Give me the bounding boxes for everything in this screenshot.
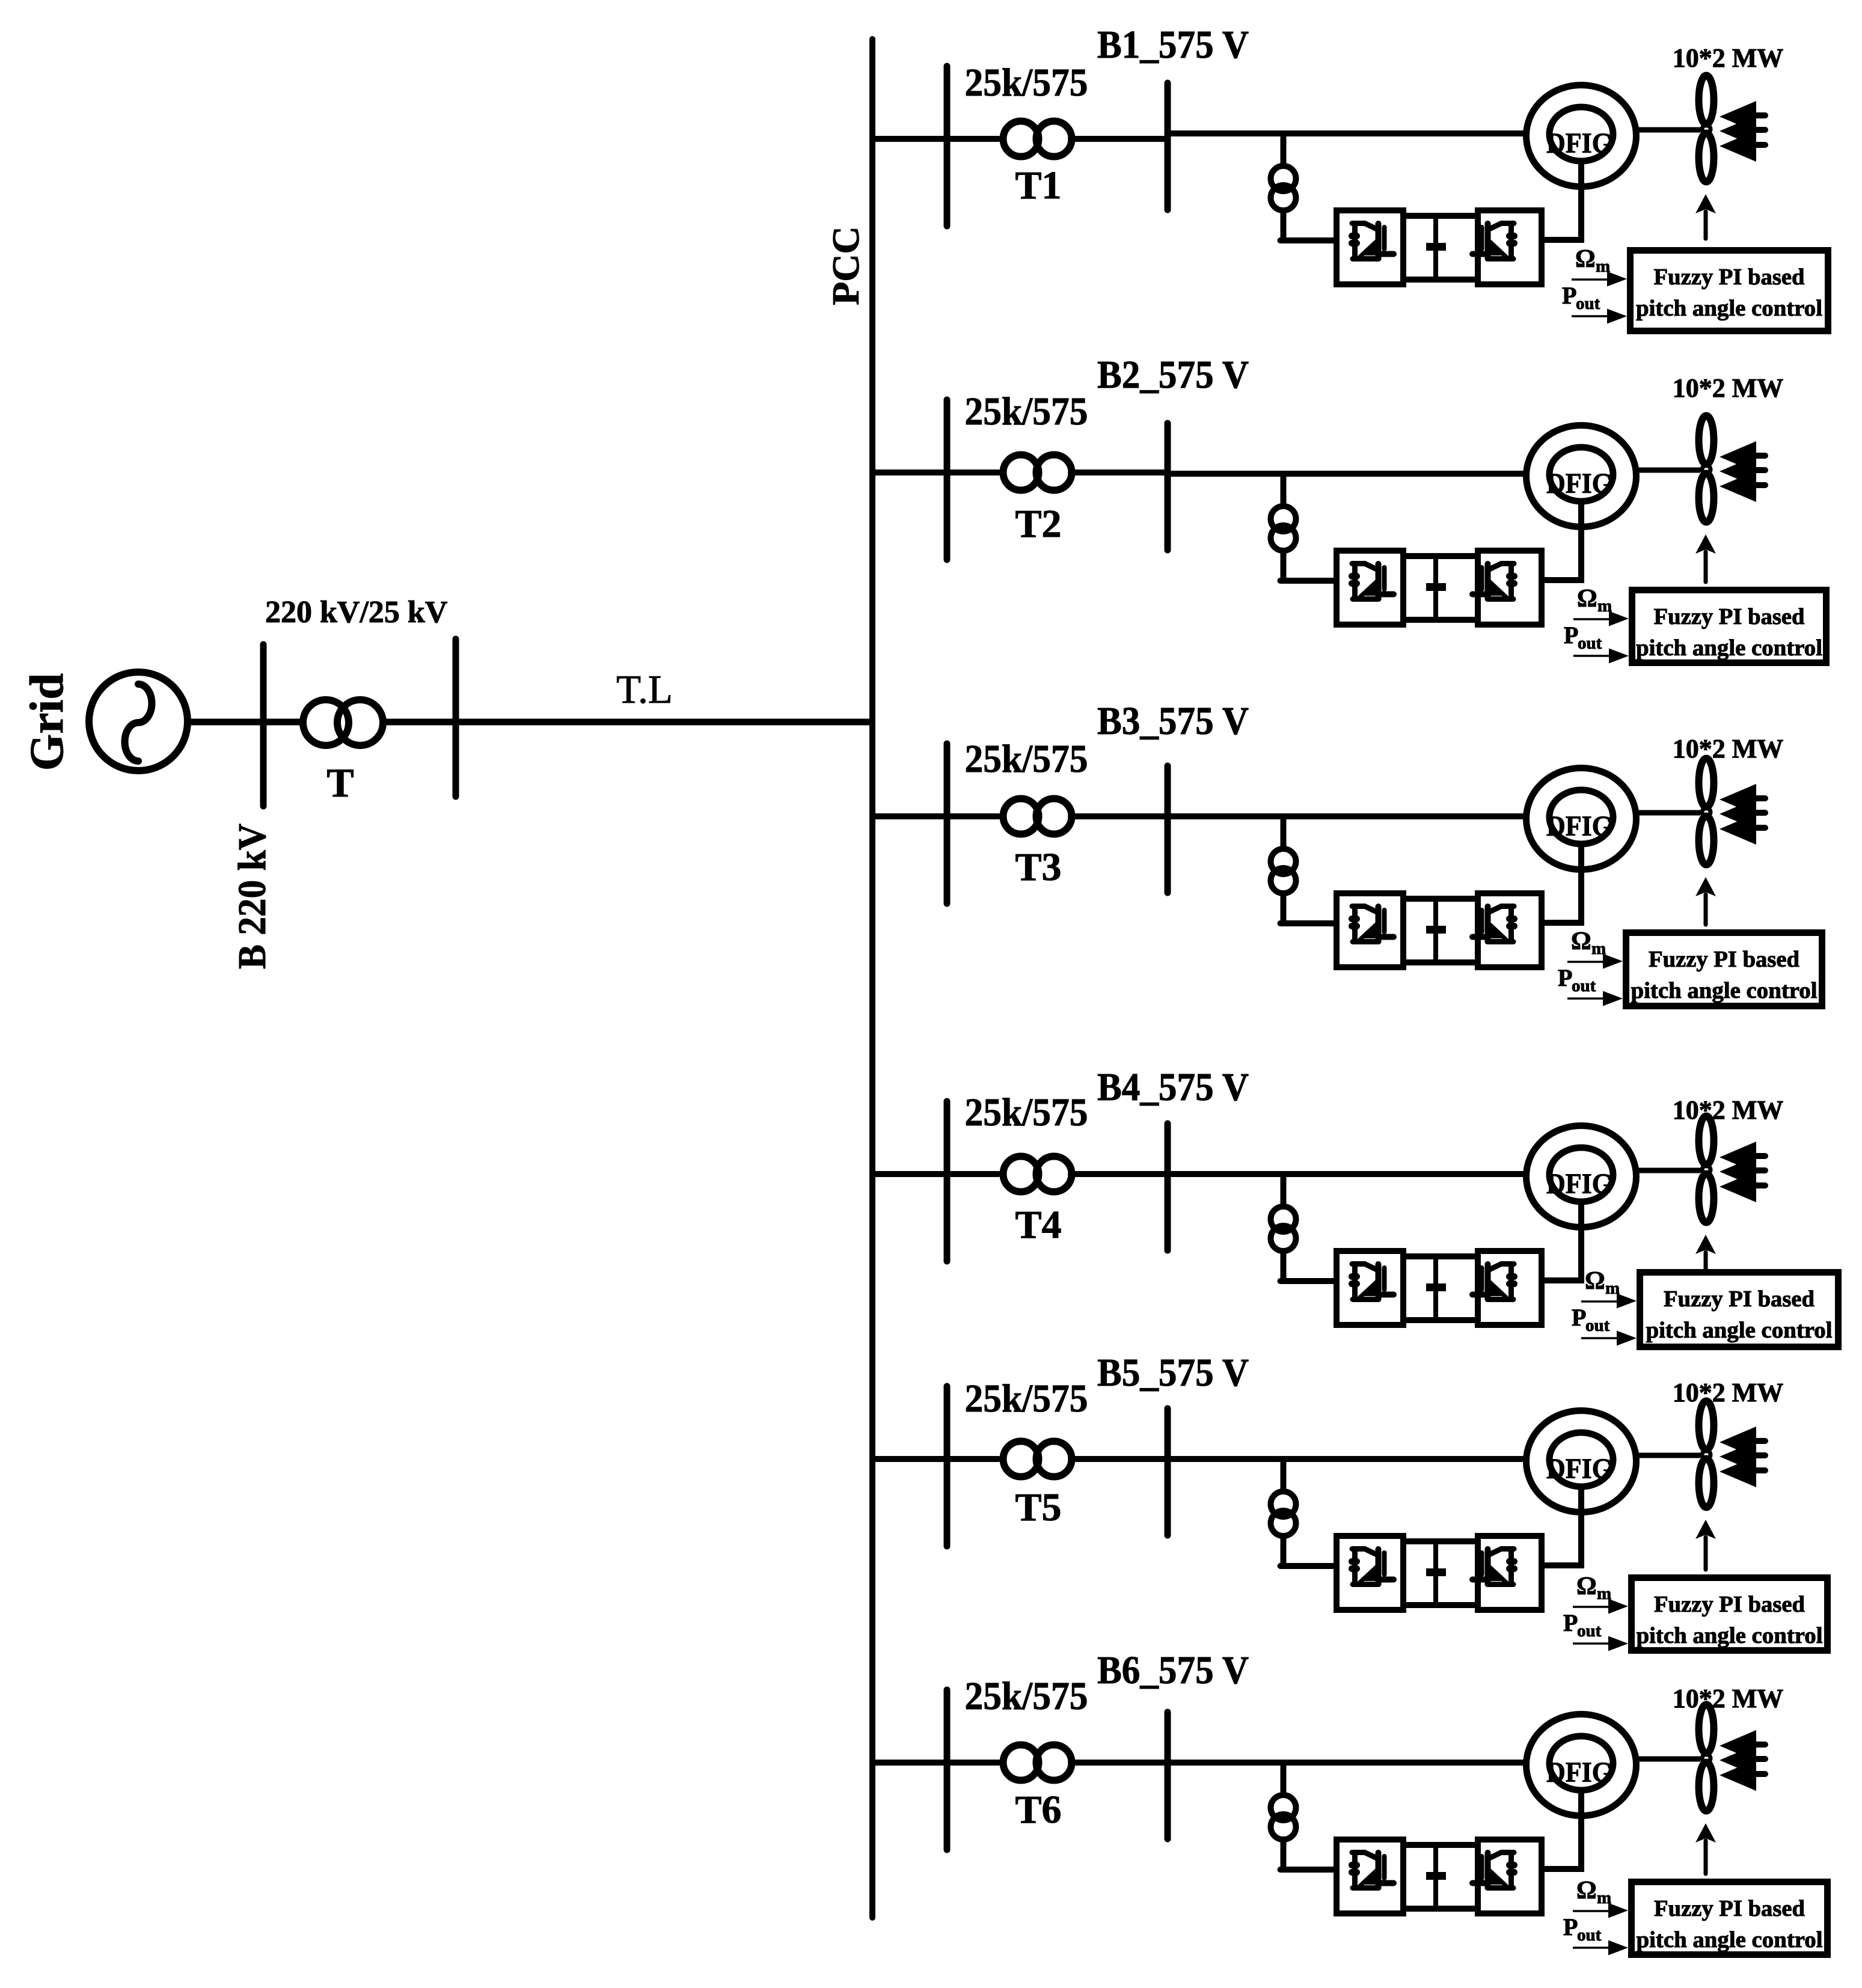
svg-text:DFIG: DFIG <box>1546 1453 1612 1485</box>
svg-text:10*2 MW: 10*2 MW <box>1673 373 1784 403</box>
svg-text:T2: T2 <box>1015 502 1061 546</box>
svg-text:B1_575 V: B1_575 V <box>1097 23 1249 67</box>
svg-text:T4: T4 <box>1015 1203 1061 1247</box>
svg-text:Fuzzy PI based: Fuzzy PI based <box>1654 1896 1805 1921</box>
svg-text:DFIG: DFIG <box>1546 810 1612 842</box>
svg-text:m: m <box>1597 596 1612 616</box>
svg-text:Fuzzy PI based: Fuzzy PI based <box>1654 604 1805 629</box>
svg-text:B6_575 V: B6_575 V <box>1097 1648 1249 1692</box>
svg-text:out: out <box>1576 294 1600 313</box>
svg-text:Fuzzy PI based: Fuzzy PI based <box>1654 1592 1805 1617</box>
svg-text:pitch angle control: pitch angle control <box>1631 978 1818 1003</box>
svg-text:out: out <box>1577 1621 1602 1641</box>
svg-text:T1: T1 <box>1015 164 1061 207</box>
svg-text:25k/575: 25k/575 <box>965 1090 1088 1134</box>
svg-text:pitch angle control: pitch angle control <box>1646 1318 1833 1343</box>
svg-text:out: out <box>1578 634 1602 653</box>
svg-text:B4_575 V: B4_575 V <box>1097 1065 1249 1109</box>
svg-text:T5: T5 <box>1015 1485 1061 1529</box>
svg-text:P: P <box>1563 1913 1578 1941</box>
svg-text:Ω: Ω <box>1576 1573 1597 1600</box>
svg-text:B5_575 V: B5_575 V <box>1097 1351 1249 1395</box>
svg-text:10*2 MW: 10*2 MW <box>1673 1378 1784 1407</box>
svg-text:Ω: Ω <box>1577 585 1597 613</box>
svg-text:pitch angle control: pitch angle control <box>1636 296 1822 321</box>
svg-text:pitch angle control: pitch angle control <box>1637 1927 1823 1953</box>
svg-text:T: T <box>326 760 354 806</box>
svg-text:B 220 kV: B 220 kV <box>230 824 274 969</box>
svg-text:T3: T3 <box>1015 845 1061 889</box>
svg-text:B3_575 V: B3_575 V <box>1097 699 1249 743</box>
svg-text:25k/575: 25k/575 <box>965 1377 1088 1421</box>
svg-text:Grid: Grid <box>21 673 73 771</box>
svg-text:m: m <box>1597 1888 1611 1907</box>
svg-text:T.L: T.L <box>616 667 673 712</box>
svg-text:25k/575: 25k/575 <box>965 390 1088 433</box>
svg-text:Ω: Ω <box>1575 245 1596 273</box>
svg-text:m: m <box>1591 939 1606 958</box>
svg-text:10*2 MW: 10*2 MW <box>1673 734 1784 763</box>
svg-text:pitch angle control: pitch angle control <box>1637 1623 1823 1648</box>
svg-text:DFIG: DFIG <box>1546 1757 1612 1788</box>
svg-text:25k/575: 25k/575 <box>965 737 1088 781</box>
svg-text:Ω: Ω <box>1571 928 1591 955</box>
svg-text:10*2 MW: 10*2 MW <box>1673 1095 1784 1125</box>
svg-text:P: P <box>1558 964 1572 991</box>
svg-text:Fuzzy PI based: Fuzzy PI based <box>1664 1286 1815 1312</box>
svg-text:out: out <box>1585 1316 1610 1335</box>
svg-text:DFIG: DFIG <box>1546 468 1612 500</box>
svg-text:m: m <box>1597 1584 1611 1603</box>
svg-text:220 kV/25 kV: 220 kV/25 kV <box>265 595 447 629</box>
svg-text:DFIG: DFIG <box>1546 1168 1612 1200</box>
svg-text:T6: T6 <box>1015 1788 1061 1832</box>
svg-text:out: out <box>1572 976 1596 996</box>
svg-text:m: m <box>1596 257 1610 276</box>
svg-text:m: m <box>1605 1279 1620 1298</box>
svg-text:P: P <box>1564 622 1578 649</box>
svg-text:10*2 MW: 10*2 MW <box>1673 1684 1784 1713</box>
svg-text:Fuzzy PI based: Fuzzy PI based <box>1649 947 1799 972</box>
svg-text:Ω: Ω <box>1585 1267 1605 1295</box>
svg-text:P: P <box>1572 1304 1586 1331</box>
svg-text:B2_575 V: B2_575 V <box>1097 353 1249 397</box>
svg-text:pitch angle control: pitch angle control <box>1636 635 1822 661</box>
svg-text:Fuzzy PI based: Fuzzy PI based <box>1654 265 1805 290</box>
svg-text:PCC: PCC <box>824 226 867 305</box>
svg-text:Ω: Ω <box>1576 1877 1597 1904</box>
svg-text:25k/575: 25k/575 <box>965 1674 1088 1718</box>
svg-text:out: out <box>1577 1925 1602 1945</box>
svg-text:P: P <box>1563 1609 1578 1636</box>
svg-text:DFIG: DFIG <box>1546 127 1612 159</box>
svg-text:25k/575: 25k/575 <box>965 61 1088 105</box>
svg-text:10*2 MW: 10*2 MW <box>1673 43 1784 73</box>
svg-text:P: P <box>1562 282 1576 309</box>
